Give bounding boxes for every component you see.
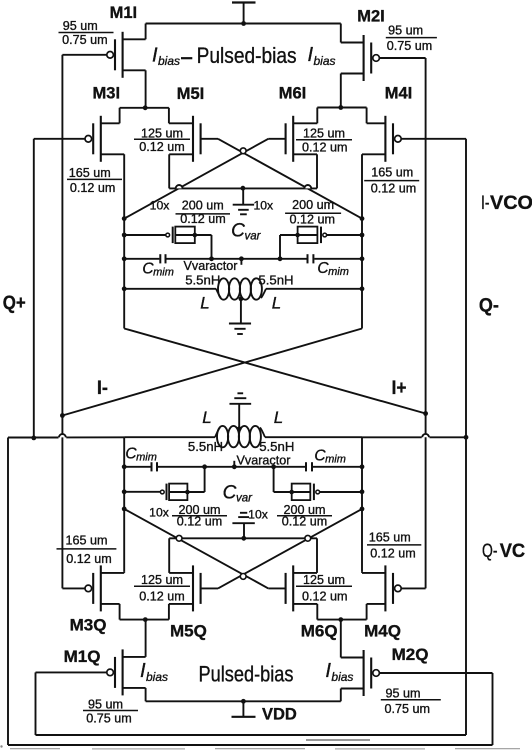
inductor L right bottom (5.5nH): [215, 426, 265, 447]
label I+ node: [392, 378, 407, 399]
svg-text:var: var: [236, 493, 253, 505]
svg-text:mim: mim: [325, 454, 346, 466]
wire hop at top cross-coupling crossing: [240, 148, 246, 154]
svg-text:Vvaractor: Vvaractor: [184, 259, 238, 273]
transistor M1I (PMOS 95um/0.75um): [62, 24, 145, 108]
wire hop drain row left: [176, 185, 183, 188]
size label varactor right top 200um over 0.12um: [285, 198, 341, 226]
svg-text:10x: 10x: [253, 198, 273, 212]
node Vvaractor tap top: [239, 256, 244, 261]
size label M6I W/L 125um over 0.12um: [296, 127, 352, 155]
label M3I: [93, 85, 121, 103]
svg-text:0.12 um: 0.12 um: [177, 514, 223, 528]
node top rail dot: [241, 21, 246, 26]
label M1Q: [64, 647, 101, 666]
wire Q+ left edge: [7, 438, 9, 746]
ground top center (M5I/M6I drains): [233, 188, 254, 214]
wire inductor row left top: [124, 288, 216, 290]
node Vvaractor tap bottom: [232, 464, 237, 469]
label 10x right bottom: [248, 507, 268, 521]
svg-text:mim: mim: [136, 452, 157, 464]
varactor Cvar right bottom (10x 200um/0.12um): [289, 484, 319, 501]
svg-text:200 um: 200 um: [292, 198, 334, 212]
label M5Q: [170, 622, 207, 641]
svg-text:0.75 um: 0.75 um: [385, 702, 431, 716]
svg-text:10x: 10x: [248, 507, 268, 521]
wire inductor row right top: [266, 288, 362, 290]
ground top inductor center tap: [229, 299, 251, 334]
svg-text:Q+: Q+: [3, 292, 26, 314]
label M5I: [177, 85, 205, 103]
label 5.5nH left bottom: [188, 439, 223, 454]
svg-text:M5Q: M5Q: [170, 622, 207, 641]
transistor M4Q (PMOS 165um/0.12um): [362, 565, 426, 619]
svg-text:L: L: [200, 294, 209, 313]
size label M1Q W/L 95um over 0.75um: [83, 698, 138, 726]
svg-text:0.12 um: 0.12 um: [371, 181, 417, 195]
transistor M4I (PMOS 165um/0.12um): [362, 108, 466, 162]
svg-text:10x: 10x: [149, 506, 169, 520]
node left tank cross-couple: [122, 216, 127, 221]
size label M4Q W/L 165um over 0.12um: [367, 531, 421, 561]
label L right top: [272, 294, 281, 313]
svg-text:0.12 um: 0.12 um: [66, 552, 112, 566]
transistor M3I (PMOS 165um/0.12um): [34, 108, 124, 162]
svg-text:Vvaractor: Vvaractor: [237, 453, 291, 467]
wire hop Q- row over I+ net: [422, 434, 429, 437]
wire Vvaractor row top: [166, 258, 306, 260]
wire net Q+ vertical (M3I gate): [33, 139, 35, 438]
size label M3Q W/L 165um over 0.12um: [57, 534, 117, 566]
label M3Q: [70, 616, 107, 635]
wire right tank vertical bottom: [361, 437, 363, 572]
node Q+ junction: [31, 436, 36, 441]
svg-text:bias: bias: [146, 670, 168, 684]
label VDD: [262, 706, 297, 724]
node I+ junction: [423, 411, 428, 416]
node Q- junction: [464, 435, 469, 440]
node left tank Cmim row: [122, 256, 127, 261]
svg-text:5.5nH: 5.5nH: [185, 272, 220, 287]
wire Q- row right: [430, 436, 467, 438]
size label M1I W/L 95um over 0.75um: [59, 19, 114, 47]
svg-text:165 um: 165 um: [371, 166, 413, 180]
wire hop at bottom cross-coupling crossing: [240, 574, 246, 580]
wire cross-couple M6Q gate to left tank: [124, 509, 268, 589]
svg-text:Pulsed-bias: Pulsed-bias: [199, 661, 294, 686]
svg-text:var: var: [245, 231, 262, 243]
svg-text:0.75 um: 0.75 um: [62, 33, 108, 47]
varactor Cvar left top (10x 200um/0.12um): [166, 227, 197, 244]
ground bottom inductor center tap: [229, 393, 251, 429]
label Vvaractor top: [184, 259, 238, 273]
wire right tank vertical top: [361, 154, 363, 328]
svg-text:165 um: 165 um: [65, 534, 107, 548]
size label M2Q W/L 95um over 0.75um: [381, 687, 441, 716]
wire Cmim row left segment top: [124, 258, 159, 260]
wire bias node left: [120, 107, 169, 109]
label Ibias left bottom: [140, 660, 168, 684]
svg-text:I-: I-: [97, 378, 108, 399]
svg-text:Q-: Q-: [479, 294, 499, 316]
node inductor center tap top: [239, 296, 244, 301]
wire net Q- vertical (M4I gate): [465, 139, 467, 735]
svg-text:125 um: 125 um: [303, 127, 345, 141]
svg-text:165 um: 165 um: [69, 166, 111, 180]
label 10x left bottom: [149, 506, 169, 520]
label Q- net: [479, 294, 499, 316]
wire left tank to left varactor bottom: [124, 491, 160, 493]
label 10x right top: [253, 198, 273, 212]
svg-text:C: C: [223, 483, 237, 504]
svg-text:C: C: [231, 221, 245, 242]
svg-text:5.5nH: 5.5nH: [259, 439, 294, 454]
capacitor Cmim right bottom: [306, 462, 312, 471]
size label M4I W/L 165um over 0.12um: [364, 166, 419, 196]
capacitor Cmim right top: [308, 254, 314, 263]
svg-text:200 um: 200 um: [182, 198, 224, 212]
svg-text:0.12 um: 0.12 um: [282, 514, 328, 528]
wire Q- bottom wrap: [36, 734, 467, 736]
svg-text:M2Q: M2Q: [392, 645, 429, 664]
label Ibias-Pulsed-bias left: [152, 43, 297, 68]
size label M3I W/L 165um over 0.12um: [67, 166, 122, 195]
wire Q+ row to tank: [66, 436, 124, 438]
svg-text:L: L: [274, 408, 283, 427]
svg-text:M3Q: M3Q: [70, 616, 107, 635]
wire Q- row from tank: [362, 436, 422, 438]
svg-text:M4I: M4I: [385, 85, 413, 103]
wire left varactor body down: [195, 235, 212, 259]
supply symbol VDD: [232, 701, 256, 717]
wire M1Q gate wrap down: [35, 672, 37, 735]
wire Vvaractor stub bottom: [233, 461, 235, 467]
transistor M6Q (PMOS 125um/0.12um): [268, 538, 317, 619]
wire right tank to right varactor bottom: [320, 491, 362, 493]
node right tank varactor row: [360, 233, 365, 238]
label 5.5nH left top: [185, 272, 220, 287]
transistor M5Q (PMOS 125um/0.12um): [169, 538, 218, 619]
inductor L right top (5.5nH): [216, 278, 266, 299]
label I-VCO: [481, 193, 532, 214]
wire bias node left bottom: [120, 619, 169, 621]
svg-text:VC: VC: [500, 541, 526, 562]
transistor M2Q (PMOS 95um/0.75um): [341, 620, 493, 702]
size label M5I W/L 125um over 0.12um: [134, 126, 190, 154]
wire inductor row right bottom: [265, 436, 362, 438]
capacitor Cmim left bottom: [152, 462, 158, 471]
label L left bottom: [202, 408, 211, 427]
wire right varactor body up bottom: [274, 467, 292, 492]
svg-text:M6Q: M6Q: [301, 622, 338, 641]
svg-text:95 um: 95 um: [88, 698, 123, 712]
node right tank Cmim row bottom: [360, 464, 365, 469]
wire drain row top: [169, 187, 317, 189]
svg-text:0.12 um: 0.12 um: [290, 212, 336, 226]
wire cross-couple M6I gate to left tank: [124, 139, 268, 219]
wire Vvaractor stub top: [240, 259, 242, 265]
svg-text:bias: bias: [331, 670, 353, 684]
label L left top: [200, 294, 209, 313]
wire right varactor body down: [280, 235, 298, 259]
label L right bottom: [274, 408, 283, 427]
label Cmim left top: [142, 261, 173, 279]
node M1I drain: [143, 105, 148, 110]
wire drain row bottom: [169, 537, 317, 539]
wire cross-couple M5Q gate to right tank: [218, 509, 362, 589]
label Cmim left bottom: [125, 446, 156, 464]
label M6I: [279, 85, 307, 103]
node right varactor body on row bottom: [271, 464, 276, 469]
svg-text:Q-: Q-: [482, 541, 498, 562]
wire top rail: [146, 23, 341, 25]
node right tank varactor row bottom: [360, 489, 365, 494]
node I- junction: [60, 413, 65, 418]
svg-text:0.12 um: 0.12 um: [302, 589, 348, 603]
wire hop drain row right: [304, 185, 311, 188]
svg-text:VDD: VDD: [262, 706, 297, 724]
wire bias node right: [317, 107, 366, 109]
label Ibias right bottom: [325, 660, 353, 684]
inductor L left bottom (5.5nH): [217, 426, 239, 447]
wire Cmim row right segment top: [314, 258, 362, 260]
wire left tank vertical top: [123, 154, 125, 328]
svg-text:0.12 um: 0.12 um: [370, 547, 416, 561]
svg-text:M1I: M1I: [110, 4, 138, 22]
transistor M5I (PMOS 125um/0.12um): [169, 108, 218, 189]
node right tank cross-couple: [360, 216, 365, 221]
svg-text:I+: I+: [392, 378, 407, 399]
node left tank varactor row: [122, 233, 127, 238]
wire net I+ vertical (M2I gate / M4Q gate): [425, 58, 427, 588]
label M4I: [385, 85, 413, 103]
svg-text:5.5nH: 5.5nH: [258, 272, 293, 287]
svg-text:Pulsed-bias: Pulsed-bias: [197, 43, 297, 68]
svg-text:125 um: 125 um: [303, 573, 345, 587]
supply symbol top: [232, 3, 256, 24]
wire Cmim row left segment bottom: [124, 466, 150, 468]
label Q-VCO: [482, 541, 532, 562]
node M2I drain: [338, 105, 343, 110]
wire left tank to left varactor: [124, 234, 166, 236]
transistor M2I (PMOS 95um/0.75um): [341, 24, 426, 108]
size label varactor left bottom 200um over 0.12um: [172, 503, 227, 528]
label Cmim right bottom: [314, 448, 345, 466]
node left varactor body on row top: [209, 256, 214, 261]
svg-text:M5I: M5I: [177, 85, 205, 103]
svg-text:10x: 10x: [150, 199, 170, 213]
node inductor center tap bottom: [237, 426, 242, 431]
wire left varactor body up bottom: [187, 467, 204, 492]
label 5.5nH right bottom: [259, 439, 294, 454]
label M2Q: [392, 645, 429, 664]
label M2I: [357, 8, 385, 26]
svg-text:125 um: 125 um: [141, 126, 183, 140]
svg-text:0.75 um: 0.75 um: [86, 711, 132, 725]
node M2Q drain: [338, 617, 343, 622]
label Vvaractor bottom: [237, 453, 291, 467]
inductor L left top (5.5nH): [218, 278, 240, 299]
svg-text:mim: mim: [153, 267, 174, 279]
wire right tank to right varactor: [326, 234, 362, 236]
svg-text:M4Q: M4Q: [364, 622, 401, 641]
wire hop drain row left bottom: [176, 535, 182, 541]
svg-text:M6I: M6I: [279, 85, 307, 103]
label 10x left top: [150, 199, 170, 213]
svg-text:165 um: 165 um: [369, 531, 411, 545]
svg-text:bias: bias: [314, 54, 336, 68]
node left tank inductor row: [122, 286, 127, 291]
svg-text:95 um: 95 um: [388, 24, 423, 38]
svg-text:bias: bias: [158, 54, 180, 68]
svg-text:L: L: [272, 294, 281, 313]
label M6Q: [301, 622, 338, 641]
wire Vvaractor row bottom: [158, 466, 305, 468]
svg-text:0.12 um: 0.12 um: [139, 140, 185, 154]
node right tank inductor row: [360, 286, 365, 291]
wire M2Q gate wrap down: [492, 673, 494, 745]
node left varactor body on row bottom: [202, 464, 207, 469]
svg-text:125 um: 125 um: [141, 573, 183, 587]
wire VDD rail: [146, 700, 341, 702]
label M1I: [110, 4, 138, 22]
wire big X right-tank to I-: [62, 329, 362, 416]
node right tank Cmim row: [360, 256, 365, 261]
varactor Cvar left bottom (10x 200um/0.12um): [160, 484, 189, 501]
label I- node: [97, 378, 108, 399]
svg-text:5.5nH: 5.5nH: [188, 439, 223, 454]
node left tank Cmim row bottom: [122, 464, 127, 469]
node drain row center top: [241, 186, 246, 191]
svg-text:M2I: M2I: [357, 8, 385, 26]
wire Q+ bottom wrap: [8, 744, 493, 746]
size label varactor right bottom 200um over 0.12um: [277, 503, 332, 528]
label 5.5nH right top: [258, 272, 293, 287]
svg-text:0.75 um: 0.75 um: [387, 39, 433, 53]
wire hop drain row right bottom: [305, 535, 311, 541]
wire inductor row left bottom: [124, 436, 215, 438]
wire cross-couple M5I gate to right tank: [218, 139, 362, 219]
label Cvar top: [231, 221, 262, 243]
transistor M1Q (PMOS 95um/0.75um): [36, 620, 146, 702]
wire left tank vertical bottom: [123, 437, 125, 572]
transistor M3Q (PMOS 165um/0.12um): [62, 565, 124, 619]
size label M2I W/L 95um over 0.75um: [386, 24, 437, 53]
wire bias node right bottom: [317, 619, 366, 621]
svg-text:M1Q: M1Q: [64, 647, 101, 666]
label Pulsed-bias bottom: [199, 661, 294, 686]
label Ibias right: [308, 44, 336, 68]
label M4Q: [364, 622, 401, 641]
svg-text:VCO: VCO: [490, 193, 532, 214]
wire hop Q+ row over I- net: [59, 434, 66, 437]
node left tank cross-couple bottom: [122, 507, 127, 512]
wire Q+ row left: [8, 437, 59, 439]
varactor Cvar right top (10x 200um/0.12um): [295, 227, 326, 244]
svg-text:mim: mim: [328, 266, 349, 278]
svg-text:0.12 um: 0.12 um: [70, 181, 116, 195]
ground bottom center (M5Q/M6Q drains): [232, 513, 254, 539]
size label varactor left top 200um over 0.12um: [176, 198, 231, 226]
node right tank cross-couple bottom: [360, 507, 365, 512]
crop marks bottom edge: [0, 740, 520, 749]
node left tank varactor row bottom: [122, 489, 127, 494]
node right varactor body on row top: [278, 256, 283, 261]
svg-text:I-: I-: [481, 193, 490, 214]
capacitor Cmim left top: [160, 254, 165, 263]
svg-text:0.12 um: 0.12 um: [302, 141, 348, 155]
size label M6Q W/L 125um over 0.12um: [296, 573, 352, 604]
wire net I- vertical (M1I gate / M3Q gate): [61, 55, 63, 589]
size label M5Q W/L 125um over 0.12um: [134, 573, 190, 604]
wire Cmim row right segment bottom: [313, 466, 362, 468]
transistor M6I (PMOS 125um/0.12um): [268, 108, 317, 189]
svg-text:0.12 um: 0.12 um: [139, 589, 185, 603]
node drain row center bottom: [241, 536, 246, 541]
label Q+ net: [3, 292, 26, 314]
svg-text:95 um: 95 um: [385, 687, 420, 701]
node VDD rail: [241, 699, 246, 704]
svg-text:M3I: M3I: [93, 85, 121, 103]
wire big X left-tank to I+: [124, 329, 425, 414]
svg-text:L: L: [202, 408, 211, 427]
label Cmim right top: [317, 260, 348, 278]
node M1Q drain: [143, 617, 148, 622]
svg-text:0.12 um: 0.12 um: [180, 212, 226, 226]
label Cvar bottom: [223, 483, 254, 505]
svg-text:95 um: 95 um: [63, 19, 98, 33]
